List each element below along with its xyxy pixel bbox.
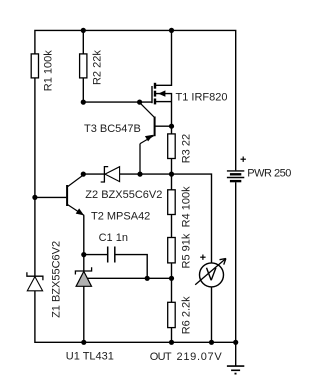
svg-text:U1 TL431: U1 TL431	[66, 351, 114, 363]
svg-text:R3 22: R3 22	[180, 134, 192, 163]
svg-text:R5 91k: R5 91k	[180, 233, 192, 268]
svg-text:R4 100k: R4 100k	[180, 186, 192, 227]
svg-text:R2 22k: R2 22k	[91, 50, 103, 85]
svg-text:PWR 250: PWR 250	[247, 168, 291, 180]
svg-text:Z2 BZX55C6V2: Z2 BZX55C6V2	[85, 189, 162, 201]
svg-text:OUT: OUT	[150, 351, 172, 363]
svg-text:C1 1n: C1 1n	[99, 232, 128, 244]
svg-text:R1 100k: R1 100k	[43, 50, 55, 91]
svg-text:T3 BC547B: T3 BC547B	[84, 123, 141, 135]
svg-text:219.07V: 219.07V	[177, 351, 223, 363]
svg-text:T2 MPSA42: T2 MPSA42	[91, 211, 150, 223]
svg-text:R6 2.2k: R6 2.2k	[180, 296, 192, 334]
svg-text:T1 IRF820: T1 IRF820	[176, 91, 228, 103]
svg-text:Z1 BZX55C6V2: Z1 BZX55C6V2	[51, 241, 63, 318]
